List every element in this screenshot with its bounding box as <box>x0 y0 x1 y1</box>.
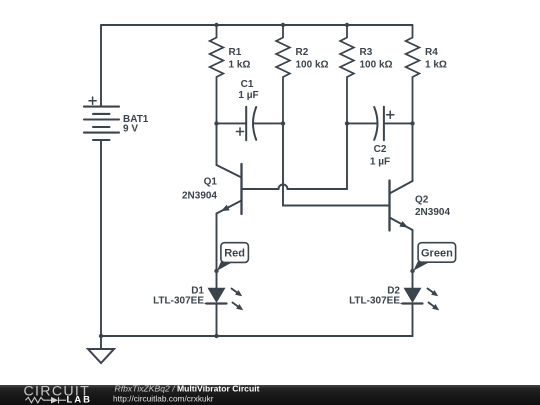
svg-text:Q2: Q2 <box>415 195 429 206</box>
svg-text:1 µF: 1 µF <box>238 90 258 101</box>
ground <box>88 349 114 363</box>
resistor R4 <box>406 25 420 123</box>
svg-text:RfbxTixZKBq2 / MultiVibrator C: RfbxTixZKBq2 / MultiVibrator Circuit <box>115 384 260 394</box>
battery plus sign <box>89 97 96 104</box>
svg-text:1 kΩ: 1 kΩ <box>425 60 447 71</box>
wire node R3 to Q1 base <box>346 123 348 189</box>
capacitor C2 <box>374 107 384 141</box>
battery BAT1 <box>84 107 119 140</box>
svg-text:LAB: LAB <box>67 394 93 405</box>
wire top rail <box>101 24 413 26</box>
svg-text:Green: Green <box>421 248 453 260</box>
svg-text:R4: R4 <box>425 47 438 58</box>
svg-text:100 kΩ: 100 kΩ <box>296 60 329 71</box>
wire battery bottom to ground <box>100 140 102 349</box>
wire C1 right <box>254 122 284 124</box>
resistor R3 <box>340 25 354 123</box>
svg-text:R3: R3 <box>360 47 373 58</box>
wire Q1 base with hop <box>242 185 348 190</box>
C1 plus sign <box>236 128 243 135</box>
wire node R2 down to Q2 base <box>283 123 390 205</box>
resistor R2 <box>276 25 290 123</box>
callout Red <box>217 243 248 271</box>
wire C2 right <box>384 122 413 124</box>
resistor R1 <box>210 25 224 123</box>
svg-text:Q1: Q1 <box>204 177 218 188</box>
svg-text:9 V: 9 V <box>123 124 138 135</box>
svg-text:2N3904: 2N3904 <box>182 190 217 201</box>
LED D1 <box>205 288 243 336</box>
wire bottom rail <box>101 335 413 337</box>
svg-text:http://circuitlab.com/crxkukr: http://circuitlab.com/crxkukr <box>113 393 214 403</box>
svg-text:1 µF: 1 µF <box>370 157 390 168</box>
callout Green <box>413 243 455 271</box>
svg-text:LTL-307EE: LTL-307EE <box>153 296 204 307</box>
LED D2 <box>401 288 439 336</box>
C2 plus sign <box>387 111 394 118</box>
svg-text:C2: C2 <box>374 144 387 155</box>
svg-text:2N3904: 2N3904 <box>415 207 450 218</box>
transistor Q2 <box>390 123 413 288</box>
svg-text:1 kΩ: 1 kΩ <box>229 60 251 71</box>
logo doodle resistor-diode <box>26 397 67 404</box>
capacitor C1 <box>246 107 256 141</box>
svg-text:R2: R2 <box>296 47 309 58</box>
wire C2 left <box>347 122 377 124</box>
svg-text:C1: C1 <box>241 79 254 90</box>
svg-text:100 kΩ: 100 kΩ <box>360 60 393 71</box>
svg-text:LTL-307EE: LTL-307EE <box>349 296 400 307</box>
wire battery top <box>100 25 102 107</box>
wire C1 left <box>217 122 247 124</box>
transistor Q1 <box>217 123 242 288</box>
svg-text:Red: Red <box>224 248 245 260</box>
svg-text:R1: R1 <box>229 47 242 58</box>
